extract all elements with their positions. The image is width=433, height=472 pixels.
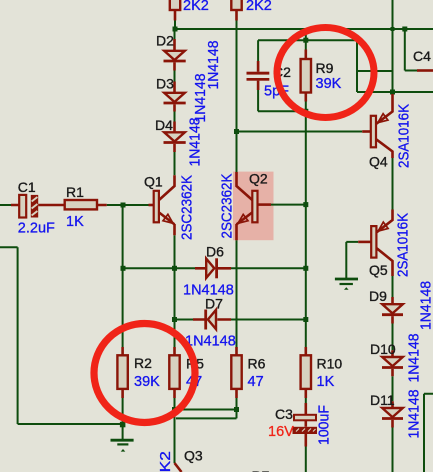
svg-text:C1: C1 <box>18 179 36 195</box>
svg-text:D2: D2 <box>156 33 174 49</box>
svg-text:R10: R10 <box>317 356 343 372</box>
svg-text:D11: D11 <box>370 392 395 408</box>
svg-text:R6: R6 <box>248 356 266 372</box>
svg-text:C3: C3 <box>275 406 293 422</box>
svg-text:1N4148: 1N4148 <box>407 390 423 439</box>
svg-text:Q2: Q2 <box>249 171 268 187</box>
svg-text:R1: R1 <box>66 184 84 200</box>
svg-text:1N4148: 1N4148 <box>407 334 423 383</box>
svg-text:D3: D3 <box>156 76 174 92</box>
svg-text:100uF: 100uF <box>317 405 333 445</box>
svg-text:Q5: Q5 <box>369 262 388 278</box>
svg-text:2SC2362K: 2SC2362K <box>220 173 236 238</box>
svg-text:39K: 39K <box>316 76 342 92</box>
svg-text:2.2uF: 2.2uF <box>18 221 55 237</box>
svg-text:R7: R7 <box>252 468 270 472</box>
svg-text:2K2: 2K2 <box>183 0 209 14</box>
svg-text:1K: 1K <box>66 214 84 230</box>
svg-text:39K: 39K <box>134 374 160 390</box>
svg-text:16V: 16V <box>268 424 294 440</box>
svg-text:D7: D7 <box>205 296 223 312</box>
svg-text:1K: 1K <box>317 374 335 390</box>
svg-text:2SA1016K: 2SA1016K <box>396 213 412 277</box>
svg-text:D10: D10 <box>370 341 396 357</box>
svg-text:2SC2362K: 2SC2362K <box>180 175 196 240</box>
svg-text:D4: D4 <box>155 117 173 133</box>
svg-text:2SA1016K: 2SA1016K <box>397 104 413 168</box>
svg-text:D6: D6 <box>206 244 224 260</box>
svg-text:D9: D9 <box>369 288 387 304</box>
svg-text:C4: C4 <box>413 48 431 64</box>
svg-text:Q4: Q4 <box>369 154 388 170</box>
svg-text:1N4148: 1N4148 <box>193 74 209 123</box>
svg-text:1N4148: 1N4148 <box>185 334 236 350</box>
svg-text:Q3: Q3 <box>184 448 203 464</box>
svg-text:1N4148: 1N4148 <box>419 281 433 330</box>
svg-text:2K2: 2K2 <box>246 0 272 14</box>
svg-text:R2: R2 <box>134 355 152 371</box>
svg-text:47: 47 <box>248 374 264 390</box>
svg-text:R9: R9 <box>316 60 334 76</box>
svg-text:Q1: Q1 <box>144 174 163 190</box>
svg-text:2K2: 2K2 <box>158 451 174 472</box>
svg-text:1N4148: 1N4148 <box>188 118 204 167</box>
